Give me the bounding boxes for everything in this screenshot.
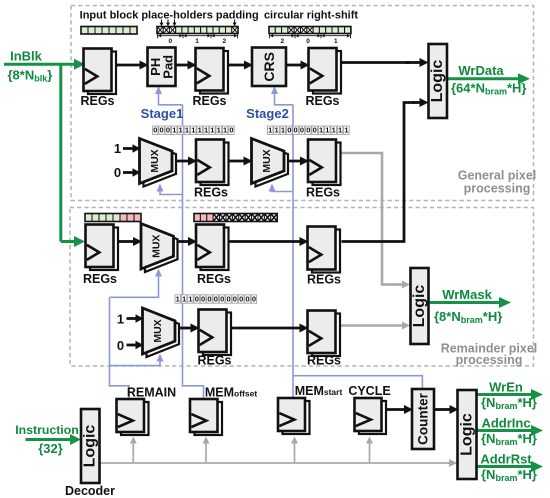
- svg-text:1: 1: [338, 126, 342, 135]
- svg-text:REGs: REGs: [197, 272, 231, 286]
- svg-text:0: 0: [287, 126, 291, 135]
- svg-text:Stage1: Stage1: [141, 106, 184, 121]
- svg-text:0: 0: [245, 295, 249, 304]
- svg-text:0: 0: [306, 38, 310, 45]
- svg-text:MEMstart: MEMstart: [295, 384, 343, 398]
- svg-text:0: 0: [233, 295, 237, 304]
- svg-text:1: 1: [344, 126, 348, 135]
- svg-text:1: 1: [325, 126, 329, 135]
- svg-text:1: 1: [210, 126, 214, 135]
- svg-text:MUX: MUX: [152, 319, 164, 342]
- svg-text:1: 1: [172, 126, 176, 135]
- svg-text:CYCLE: CYCLE: [348, 384, 390, 398]
- svg-text:1: 1: [268, 126, 272, 135]
- svg-text:Logic: Logic: [411, 285, 428, 328]
- svg-text:0: 0: [117, 338, 124, 353]
- svg-text:0: 0: [159, 126, 163, 135]
- svg-text:0: 0: [214, 295, 218, 304]
- svg-text:Input block: Input block: [80, 10, 140, 22]
- svg-text:2: 2: [280, 38, 284, 45]
- svg-text:MEMoffset: MEMoffset: [205, 386, 257, 400]
- svg-text:1: 1: [195, 38, 199, 45]
- svg-text:AddrRst: AddrRst: [480, 452, 532, 467]
- svg-text:0: 0: [313, 126, 317, 135]
- svg-text:0: 0: [239, 295, 243, 304]
- svg-text:place-holders padding: place-holders padding: [141, 10, 258, 22]
- svg-text:REGs: REGs: [80, 94, 114, 108]
- svg-text:0: 0: [220, 295, 224, 304]
- svg-text:{32}: {32}: [38, 441, 63, 456]
- svg-text:0: 0: [229, 126, 233, 135]
- svg-text:REGs: REGs: [307, 273, 341, 287]
- svg-text:1: 1: [334, 38, 338, 45]
- svg-text:{Nbram*H}: {Nbram*H}: [481, 395, 537, 411]
- svg-text:1: 1: [281, 126, 285, 135]
- svg-text:1: 1: [114, 141, 121, 156]
- svg-text:CRS: CRS: [261, 52, 277, 82]
- svg-text:Stage2: Stage2: [246, 106, 289, 121]
- svg-text:WrMask: WrMask: [442, 287, 492, 302]
- svg-text:REGs: REGs: [194, 186, 228, 200]
- svg-text:0: 0: [252, 295, 256, 304]
- svg-text:Logic: Logic: [82, 425, 99, 468]
- svg-text:0: 0: [300, 126, 304, 135]
- svg-text:REGs: REGs: [306, 186, 340, 200]
- svg-text:1: 1: [185, 126, 189, 135]
- svg-text:1: 1: [319, 126, 323, 135]
- svg-text:REGs: REGs: [305, 94, 339, 108]
- svg-text:0: 0: [207, 295, 211, 304]
- svg-text:Logic: Logic: [429, 60, 446, 103]
- svg-text:1: 1: [198, 126, 202, 135]
- svg-text:REGs: REGs: [83, 272, 117, 286]
- svg-text:Instruction: Instruction: [15, 423, 79, 437]
- svg-text:WrEn: WrEn: [489, 380, 523, 395]
- svg-text:AddrInc: AddrInc: [481, 416, 530, 431]
- svg-text:circular right-shift: circular right-shift: [264, 10, 358, 22]
- svg-text:REMAIN: REMAIN: [127, 386, 176, 400]
- svg-text:REGs: REGs: [192, 94, 226, 108]
- svg-text:1: 1: [182, 295, 186, 304]
- svg-text:{64*Nbram*H}: {64*Nbram*H}: [451, 81, 527, 97]
- svg-text:{Nbram*H}: {Nbram*H}: [481, 431, 537, 447]
- svg-text:1: 1: [274, 126, 278, 135]
- svg-text:1: 1: [217, 126, 221, 135]
- svg-text:REGs: REGs: [197, 354, 231, 368]
- svg-text:General pixel: General pixel: [458, 169, 537, 183]
- svg-text:0: 0: [153, 126, 157, 135]
- svg-text:REGs: REGs: [307, 354, 341, 368]
- svg-text:0: 0: [306, 126, 310, 135]
- svg-text:MUX: MUX: [261, 149, 273, 172]
- svg-text:Logic: Logic: [459, 413, 476, 456]
- svg-text:0: 0: [114, 165, 121, 180]
- svg-text:Decoder: Decoder: [65, 484, 115, 498]
- svg-text:0: 0: [226, 295, 230, 304]
- svg-text:0: 0: [294, 126, 298, 135]
- svg-text:1: 1: [176, 295, 180, 304]
- svg-text:MUX: MUX: [149, 149, 161, 172]
- svg-text:1: 1: [188, 295, 192, 304]
- svg-text:WrData: WrData: [458, 63, 504, 78]
- svg-text:processing: processing: [456, 353, 523, 367]
- svg-text:0: 0: [195, 295, 199, 304]
- svg-text:InBlk: InBlk: [10, 49, 43, 64]
- svg-text:MUX: MUX: [150, 235, 162, 258]
- svg-text:1: 1: [204, 126, 208, 135]
- svg-text:0: 0: [166, 126, 170, 135]
- svg-text:1: 1: [191, 126, 195, 135]
- svg-text:Pad: Pad: [161, 55, 176, 79]
- svg-text:0: 0: [201, 295, 205, 304]
- svg-text:0: 0: [168, 38, 172, 45]
- svg-text:1: 1: [117, 312, 124, 327]
- svg-text:{8*Nblk}: {8*Nblk}: [8, 68, 53, 84]
- svg-text:1: 1: [223, 126, 227, 135]
- svg-text:2: 2: [222, 38, 226, 45]
- svg-text:Counter: Counter: [416, 392, 431, 444]
- svg-text:1: 1: [332, 126, 336, 135]
- svg-text:{Nbram*H}: {Nbram*H}: [481, 467, 537, 483]
- svg-text:1: 1: [179, 126, 183, 135]
- svg-text:{8*Nbram*H}: {8*Nbram*H}: [434, 309, 502, 325]
- svg-text:processing: processing: [464, 182, 531, 196]
